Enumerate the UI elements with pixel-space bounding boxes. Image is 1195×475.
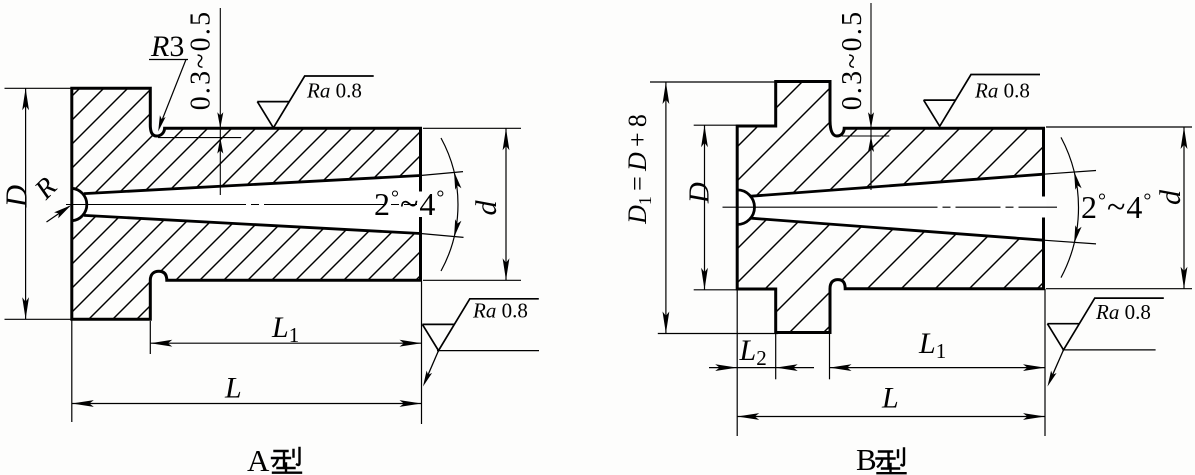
unground surface line (0.3~0.5 ref): [158, 137, 241, 139]
dimension line L2: [709, 367, 814, 369]
dimension line L1: [150, 342, 421, 344]
extension line L1 left: [149, 321, 151, 354]
dimension line D: [704, 125, 706, 290]
lower taper extension line: [421, 234, 464, 238]
arrow D top: [701, 125, 708, 147]
arrow L left: [737, 413, 759, 420]
arc arrow bottom: [1074, 225, 1082, 243]
surface finish symbol: [1047, 298, 1163, 350]
arrow d bottom: [1181, 267, 1188, 289]
arrow d top: [1181, 127, 1188, 149]
extension line D top: [5, 87, 72, 89]
arrow L left: [72, 400, 94, 407]
underline R3: [149, 59, 188, 61]
extension line D1 bottom: [658, 333, 778, 335]
svg-text:D: D: [684, 182, 716, 204]
arrow L2 right (outside): [776, 364, 798, 371]
gap in right face line: [1041, 197, 1047, 218]
arrow D bottom: [701, 268, 708, 290]
part A outline: [72, 88, 421, 319]
leader R arrow: [54, 205, 71, 218]
extension line D bottom: [694, 289, 738, 291]
dimension line 0.3~0.5: [219, 8, 221, 195]
svg-text:Ra 0.8: Ra 0.8: [306, 79, 362, 103]
arc arrow top: [454, 172, 461, 190]
unground surface line (0.3~0.5 ref): [842, 135, 890, 137]
leader tail Ra: [425, 351, 439, 383]
dimension line L1: [830, 367, 1046, 369]
extension line d top: [423, 127, 521, 129]
leader Ra arrow: [1048, 371, 1057, 387]
arrow D1 top: [663, 82, 670, 104]
dimension line 0.3~0.5: [870, 3, 872, 190]
svg-text:D1 = D + 8: D1 = D + 8: [623, 114, 655, 225]
extension line left face: [736, 290, 738, 436]
arrow L right: [1023, 413, 1045, 420]
arrow L1 left: [830, 364, 852, 371]
extension line D1 top: [650, 81, 776, 83]
arrow d bottom: [503, 258, 510, 280]
upper taper line: [84, 176, 421, 194]
svg-text:0.3~0.5: 0.3~0.5: [837, 10, 868, 111]
surface finish symbol: [257, 76, 373, 128]
angle dimension arc: [1061, 137, 1079, 277]
upper taper extension line: [1044, 171, 1097, 175]
extension line D bottom: [5, 318, 72, 320]
extension line d top: [1046, 126, 1192, 128]
surface finish symbol: [924, 75, 1040, 127]
upper taper line: [751, 174, 1044, 196]
extension line D top: [694, 124, 738, 126]
svg-text:Ra 0.8: Ra 0.8: [1095, 300, 1151, 324]
reference line for Ra symbol: [1062, 349, 1155, 351]
angle dimension arc: [441, 138, 458, 271]
leader R3: [161, 60, 187, 125]
svg-text:A: A: [247, 443, 270, 475]
centerline axis: [66, 204, 417, 206]
dimension line L: [72, 403, 422, 405]
svg-text:R3: R3: [150, 30, 184, 63]
arrow D1 bottom: [663, 312, 670, 334]
ball-nose vertex radius: [737, 190, 754, 225]
ball-nose vertex radius R: [72, 188, 87, 221]
tapered hole interior (white): [737, 190, 755, 225]
dimension line d: [1183, 127, 1185, 289]
svg-text:L: L: [224, 372, 242, 405]
reference line for Ra symbol: [437, 350, 539, 352]
centerline axis: [723, 206, 1058, 208]
upper taper extension line: [421, 172, 464, 176]
extension line right face: [1044, 289, 1046, 436]
dimension line L: [737, 416, 1045, 418]
part A cross-section hatched body: [72, 88, 421, 319]
part B cross-section hatched body: [737, 82, 1043, 333]
dimension line D: [25, 88, 27, 319]
arrow to surface: [868, 112, 874, 128]
svg-text:d: d: [1154, 189, 1187, 205]
arrow d top: [503, 128, 510, 150]
arrow to ref line: [217, 138, 223, 154]
part B outline: [737, 82, 1043, 333]
surface finish symbol: [422, 299, 538, 351]
tapered hole interior (white): [72, 188, 89, 221]
dimension line d: [505, 128, 507, 280]
svg-text:0.3~0.5: 0.3~0.5: [186, 10, 217, 111]
arrow D top: [22, 88, 29, 110]
arrow L2 left (outside): [715, 364, 737, 371]
arrow to surface: [217, 112, 223, 128]
extension line d bottom: [1046, 288, 1192, 290]
caption glyph 型: [272, 448, 301, 473]
svg-text:B: B: [856, 442, 877, 475]
svg-text:Ra 0.8: Ra 0.8: [974, 79, 1030, 103]
leader tail Ra: [1049, 350, 1064, 383]
arrow L right: [400, 400, 422, 407]
extension line L left: [71, 319, 73, 422]
svg-text:Ra 0.8: Ra 0.8: [472, 299, 528, 323]
extension line boss left: [775, 334, 777, 379]
svg-text:L: L: [881, 382, 899, 415]
lower taper extension line: [1044, 240, 1097, 244]
dimension line D1: [665, 82, 667, 334]
arc arrow top: [1074, 172, 1082, 190]
leader R3 arrow: [158, 115, 165, 131]
extension line d bottom: [423, 279, 521, 281]
lower taper line: [751, 218, 1044, 240]
arrow L1 right: [1023, 364, 1045, 371]
svg-text:d: d: [470, 200, 503, 216]
caption glyph 型: [877, 449, 906, 474]
lower taper line: [84, 215, 421, 233]
arrow L1 left: [150, 340, 172, 347]
gap in right face line: [418, 192, 424, 218]
leader R: [47, 206, 70, 222]
arrow L1 right: [400, 340, 422, 347]
extension line right (L1/L): [421, 280, 423, 424]
arrow D bottom: [22, 297, 29, 319]
arc arrow bottom: [454, 219, 461, 237]
svg-text:2°~4°: 2°~4°: [1081, 189, 1152, 226]
leader Ra arrow: [423, 371, 432, 387]
arrow to ref line: [868, 136, 874, 152]
svg-text:2°~4°: 2°~4°: [374, 186, 445, 223]
svg-text:D: D: [0, 185, 34, 208]
extension line boss right: [829, 334, 831, 379]
